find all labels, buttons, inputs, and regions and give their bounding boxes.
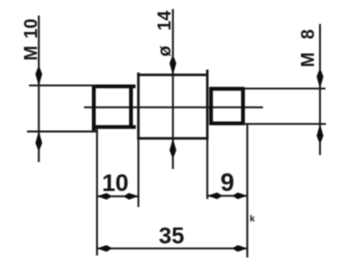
M8 top arrowhead — [317, 71, 324, 89]
left top outline extension line — [29, 84, 96, 86]
dim35 right arrowhead — [234, 245, 248, 252]
M8 bottom arrowhead — [317, 124, 324, 142]
dia14 vertical dimension line — [172, 9, 174, 169]
svg-text:M 8: M 8 — [298, 29, 318, 67]
dimension line 10 — [97, 195, 139, 197]
svg-text:9: 9 — [220, 169, 234, 197]
svg-text:10: 10 — [102, 170, 129, 197]
dimension line 35 — [97, 247, 248, 249]
dia14 top arrowhead — [170, 57, 177, 75]
M8 vertical dimension line — [319, 24, 321, 155]
dim9 right arrowhead — [234, 193, 248, 200]
dim9 left arrowhead — [208, 193, 222, 200]
svg-text:ø 14: ø 14 — [155, 11, 175, 57]
dimension line 9 — [207, 195, 247, 197]
right top outline extension line — [244, 88, 326, 90]
M10 top arrowhead — [35, 68, 42, 86]
collar top edge — [137, 74, 208, 77]
M10 thread block left edge — [92, 85, 96, 133]
M10 thread block right edge — [129, 85, 133, 128]
collar bottom edge — [137, 137, 208, 140]
dim10 right arrowhead — [125, 193, 139, 200]
dim35 left arrowhead — [97, 245, 111, 252]
dim10 left arrowhead — [97, 193, 111, 200]
collar right edge + extension down — [206, 70, 209, 140]
center line (axis) — [84, 106, 263, 108]
left bottom outline extension line — [27, 131, 98, 133]
M8 thread block left edge — [209, 87, 213, 125]
right bottom outline extension line — [244, 123, 326, 125]
svg-text:35: 35 — [159, 222, 185, 248]
M10 vertical dimension line — [38, 16, 40, 163]
M10 bottom arrowhead — [35, 131, 42, 149]
svg-text:M 10: M 10 — [21, 19, 41, 61]
bottom-right extension line (stud right face) — [246, 125, 248, 258]
M8 thread block top edge — [210, 87, 245, 91]
M8 thread block right edge — [241, 87, 245, 125]
M8 thread block bottom edge — [210, 122, 245, 126]
M10 thread block bottom edge — [92, 125, 136, 129]
bottom-left extension line (stud left face) — [96, 127, 98, 256]
M10 thread block top edge — [92, 85, 136, 89]
dia14 bottom arrowhead — [170, 138, 177, 156]
collar left edge + extension down — [137, 73, 140, 140]
